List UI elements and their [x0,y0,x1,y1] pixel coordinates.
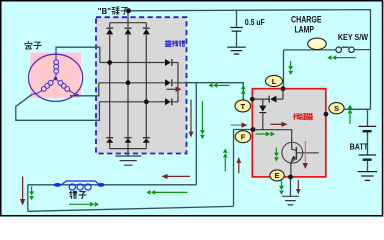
wire rotor left drop [27,185,29,212]
charge lamp bulb [308,38,327,49]
bottom diode D6 [143,137,150,143]
trio diode T1 [165,59,172,66]
regulator red border [252,89,325,177]
wire trio output to T corner [187,83,244,101]
svg-text:E: E [274,171,279,180]
trio diode T2 [165,79,172,86]
wire stator phase2 to row2 [70,83,99,96]
E ground [282,196,299,205]
node B riser [127,11,129,23]
label regulator (red) [293,113,312,119]
stator coil right [56,79,79,96]
vertical diode [259,106,266,114]
svg-text:KEY S/W: KEY S/W [338,33,368,42]
rotor slip ring right [97,183,104,187]
bottom diode D4 [106,137,113,143]
arrow F riser up maroon [236,157,241,174]
svg-text:"B": "B" [98,6,111,16]
transistor base bar [295,147,297,160]
node F dot [251,127,256,132]
arrow far left long down [20,177,25,206]
svg-text:F: F [241,133,246,142]
arrow rotor upper left [162,174,191,179]
wire capacitor branch [236,10,238,27]
arrow below E down maroon [296,180,301,195]
capacitor 0.5uF plates [230,28,243,32]
arrow inside regulator to transistor [271,122,288,127]
arrow F riser up [223,149,228,158]
arrow rotor inflow down [29,191,34,200]
arrow bottom wire right [90,202,99,207]
arrow rectifier output right [167,87,182,92]
terminal F [235,131,251,143]
trio bus [172,63,186,102]
L drop inside [252,89,283,99]
branch to vertical diode [262,99,264,130]
rotor slip ring left [54,183,61,187]
E ground stem [290,177,292,196]
battery ground [358,172,378,181]
top diode D1 [106,28,113,35]
top rail [110,22,147,24]
wire lamp horizontal [284,49,337,51]
arrow inside regulator down [274,153,279,162]
stator coil left [32,79,56,95]
node E dot [288,175,293,180]
arrow below E down [279,186,284,195]
transistor base lead [296,152,318,154]
F wire inside to transistor [253,130,292,143]
arrow trio output left [208,83,217,88]
arrow key switch current left [327,55,336,60]
node B dot [126,8,131,13]
svg-text:T: T [241,102,246,111]
label rectifier (blue) [165,41,185,47]
arrow lamp branch down [288,66,293,75]
key switch KEY S/W [336,47,342,53]
arrow beside rectifier exit long down [189,100,194,138]
wire rotor feed drop [195,83,197,185]
stator ellipse [28,54,82,101]
arrow to F (gray shaft) [231,122,248,127]
node L dot [281,86,286,91]
node S dot [324,112,329,117]
rectifier box fill [96,17,187,153]
row 3 [99,101,165,103]
rectifier ground stem [127,149,129,156]
battery BATT plates [359,126,377,159]
column 1 [109,23,111,149]
svg-text:CHARGE: CHARGE [291,15,322,25]
label rotor [69,191,86,198]
arrow transistor down [303,141,308,169]
wire F horizontal [234,129,254,131]
regulator box fill [252,89,325,177]
transistor Q1 circle [282,142,303,163]
terminal T [235,100,251,112]
top diode D2 [125,28,132,35]
junction dot row3 [144,99,149,104]
svg-text:0.5 uF: 0.5 uF [245,17,265,27]
wire F riser [233,130,235,207]
top diode D3 [143,28,150,35]
column 3 [145,23,147,149]
row 1 [100,62,165,64]
arrow rotor return left [146,190,155,195]
arrow up into T [241,85,246,94]
rectifier ground [115,156,141,165]
terminal E [270,170,284,181]
rotor coil [61,181,99,190]
capacitor ground [227,47,245,54]
transistor collector into circle [292,142,297,150]
wire bottom return [28,206,234,211]
svg-text:S: S [334,104,339,113]
wire S to battery [344,50,371,110]
arrow battery up [348,105,353,114]
terminal S [329,103,344,114]
stator pink box [30,53,81,98]
trio diode T3 [165,98,172,105]
wire lamp drop to L [283,50,285,88]
row 2 [99,82,166,84]
stator center dot [54,77,57,80]
wire B rail top [129,10,371,50]
svg-text:BATT: BATT [350,141,369,151]
bottom rail [110,148,147,150]
wire stator phase1 to row1 [56,47,100,62]
transistor emitter [291,158,297,177]
horizontal diode (L to T) [269,96,277,103]
junction dot row1 [107,60,112,65]
arrow field feed down [200,130,205,139]
wire switch to right [354,49,370,51]
column 2 [127,23,129,149]
wire battery stem [367,109,369,171]
label stator [25,42,41,49]
terminal L [266,75,283,86]
wire rotor line [28,184,197,186]
transistor emitter arrowhead [290,156,295,162]
arrow inside regulator right [266,132,275,137]
svg-text:L: L [272,77,277,86]
wire stator phase3 detour [16,94,100,120]
svg-text:LAMP: LAMP [295,24,315,34]
rectifier dashed border [96,17,187,153]
node T dot [250,97,255,102]
wire capacitor to ground [236,32,238,47]
bottom diode D5 [125,137,132,143]
stator coil top [54,54,59,78]
junction dot row2 [126,80,131,85]
